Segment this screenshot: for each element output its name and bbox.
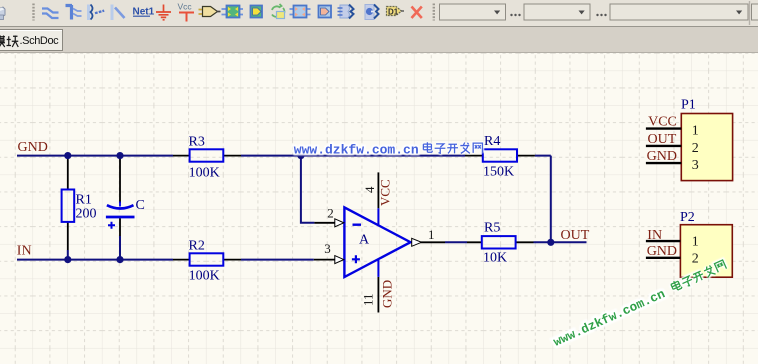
svg-text:3: 3 <box>324 241 331 256</box>
no-erc cross icon <box>412 7 422 19</box>
gnd power icon <box>156 5 171 20</box>
right edge control <box>750 1 758 25</box>
svg-text:GND: GND <box>647 149 677 164</box>
wire IN rail <box>17 259 314 261</box>
svg-text:R4: R4 <box>484 134 500 149</box>
resistor R3 <box>173 135 241 181</box>
op-amp pin 2 <box>314 206 343 227</box>
device sheet entry icon <box>319 6 332 18</box>
svg-text:R5: R5 <box>484 221 500 236</box>
svg-text:11: 11 <box>361 293 376 306</box>
svg-text:2: 2 <box>327 206 334 221</box>
junction node GND/C <box>116 152 123 159</box>
svg-text:D1: D1 <box>388 8 399 17</box>
svg-text:VCC: VCC <box>378 179 393 206</box>
combo box 1 <box>440 4 506 20</box>
wire R1 bottom stub <box>67 250 69 260</box>
sheet symbol icon <box>222 6 244 18</box>
wire GND rail left <box>17 155 551 157</box>
net label OUT <box>561 228 590 243</box>
P1 pin 1 VCC <box>646 115 699 139</box>
wire feedback vertical <box>550 156 552 243</box>
svg-text:GND: GND <box>647 244 677 259</box>
op-amp pin 3 <box>314 241 344 264</box>
svg-text:GND: GND <box>380 280 395 308</box>
P1 pin 3 GND <box>646 149 699 173</box>
svg-text:IN: IN <box>17 244 32 259</box>
gripper 2 <box>433 4 435 21</box>
svg-text:OUT: OUT <box>561 228 590 243</box>
wire C bottom stub <box>119 236 121 260</box>
op-amp minus input mark <box>353 223 362 225</box>
op-amp pin 1 output <box>412 227 445 246</box>
connector P1 <box>681 98 733 181</box>
P1 pin 2 OUT <box>646 132 699 156</box>
svg-text:R1: R1 <box>76 192 92 207</box>
svg-text:100K: 100K <box>189 166 220 181</box>
svg-text:R3: R3 <box>189 135 205 150</box>
junction node output <box>547 239 554 246</box>
svg-text:VCC: VCC <box>648 115 677 130</box>
svg-text:www.dzkfw.com.cn: www.dzkfw.com.cn <box>294 143 419 158</box>
combo box 2 <box>524 4 590 20</box>
device sheet symbol icon <box>272 4 284 17</box>
svg-text:1: 1 <box>428 227 435 242</box>
svg-text:OUT: OUT <box>648 132 677 147</box>
junction node GND/R1 <box>64 152 71 159</box>
part icon <box>199 7 221 17</box>
net label GND <box>18 140 48 155</box>
net label IN <box>17 244 32 259</box>
svg-text:2: 2 <box>692 141 699 156</box>
op-amp pin 11 GND <box>361 259 395 312</box>
svg-text:1: 1 <box>692 124 699 139</box>
svg-text:P2: P2 <box>680 210 695 225</box>
svg-text:1: 1 <box>692 234 699 249</box>
op-amp plus input mark <box>352 255 360 263</box>
wire tool icon <box>42 9 59 19</box>
svg-text:10K: 10K <box>483 250 507 265</box>
wire inverting node to pin2 <box>301 156 315 223</box>
svg-text:R2: R2 <box>189 239 205 254</box>
dots 2 <box>596 14 606 16</box>
line tool icon <box>112 5 125 21</box>
svg-text:P1: P1 <box>681 98 696 113</box>
capacitor C <box>106 156 145 236</box>
partial icon left edge <box>0 7 5 20</box>
svg-text:3: 3 <box>692 158 699 173</box>
resistor R5 <box>467 221 534 266</box>
resistor R4 <box>465 134 535 180</box>
toolbar <box>0 0 758 27</box>
wire output rail <box>445 241 587 243</box>
bus tool icon <box>66 5 82 20</box>
svg-text:2: 2 <box>692 252 699 267</box>
junction node IN/C <box>116 256 123 263</box>
tab bar <box>0 27 758 53</box>
harness entry icon <box>365 5 379 20</box>
svg-text:4: 4 <box>362 186 377 193</box>
watermark green bottom right <box>551 259 728 349</box>
resistor R1 <box>62 156 97 250</box>
connector P2 <box>680 210 732 277</box>
P2 pin 1 IN <box>646 228 699 250</box>
designator D1 icon <box>387 7 405 17</box>
sheet entry icon <box>251 6 263 18</box>
svg-text:IN: IN <box>647 228 662 243</box>
harness connector icon <box>338 5 354 19</box>
toolbar gripper <box>32 4 34 21</box>
combo box 3 <box>610 4 748 20</box>
op-amp pin 4 VCC <box>362 172 393 225</box>
svg-text:100K: 100K <box>189 269 220 284</box>
resistor R2 <box>173 239 241 284</box>
watermark blue center <box>294 142 483 157</box>
svg-text:200: 200 <box>76 207 97 222</box>
junction node inverting <box>297 152 304 159</box>
device sheet icon <box>290 6 311 18</box>
svg-text:GND: GND <box>18 140 48 155</box>
svg-text:150K: 150K <box>483 164 514 179</box>
svg-text:A: A <box>359 233 370 248</box>
bus entry icon <box>89 5 105 21</box>
vcc power icon <box>178 2 195 22</box>
P2 pin 2 GND <box>646 244 699 267</box>
dots 1 <box>510 14 520 16</box>
svg-text:C: C <box>136 198 145 213</box>
junction node IN/R1 <box>64 256 71 263</box>
svg-text:Vcc: Vcc <box>178 2 193 12</box>
op-amp U A triangle <box>344 207 410 277</box>
net label icon <box>133 7 155 18</box>
